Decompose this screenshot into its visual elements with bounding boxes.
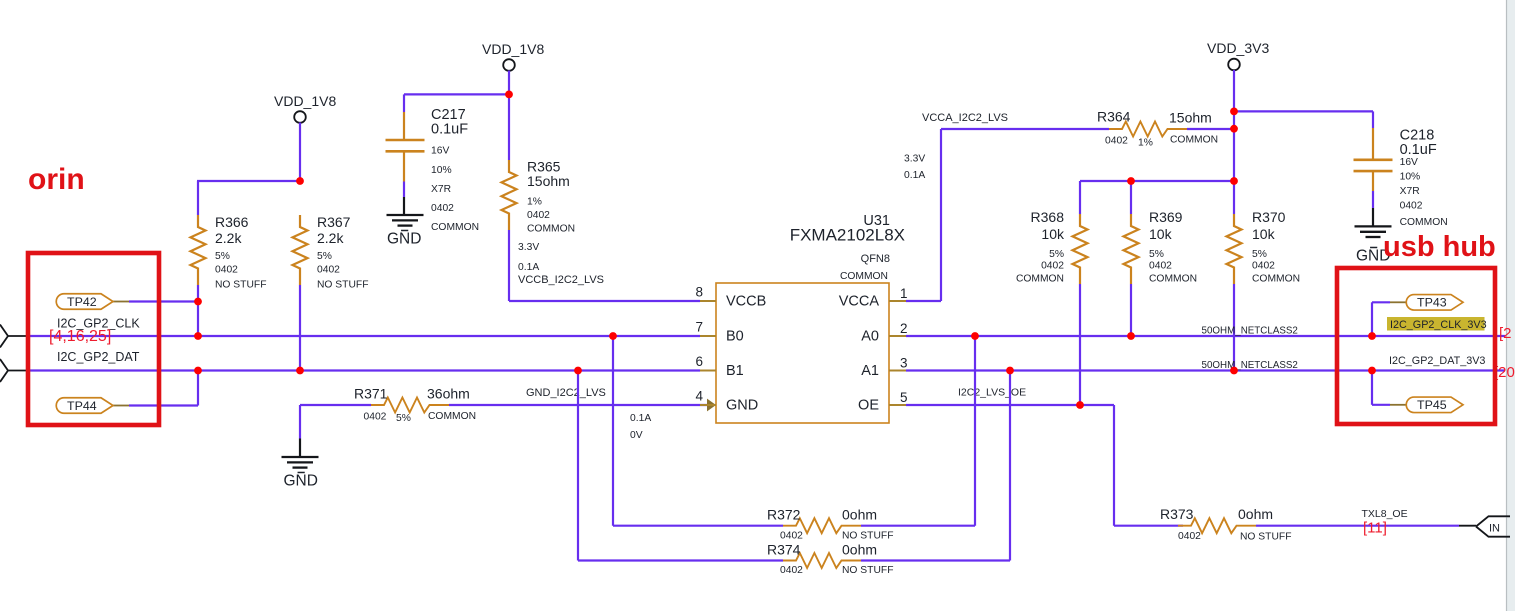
svg-text:GND: GND xyxy=(284,473,318,490)
svg-text:R374: R374 xyxy=(767,542,801,558)
svg-text:VDD_1V8: VDD_1V8 xyxy=(482,41,544,57)
svg-text:2: 2 xyxy=(900,321,908,336)
svg-text:R371: R371 xyxy=(354,386,388,402)
svg-text:COMMON: COMMON xyxy=(527,224,575,235)
svg-text:R373: R373 xyxy=(1160,506,1194,522)
svg-text:0.1A: 0.1A xyxy=(518,262,539,273)
svg-text:1%: 1% xyxy=(527,197,542,208)
svg-text:5%: 5% xyxy=(1149,249,1164,260)
svg-text:TXL8_OE: TXL8_OE xyxy=(1362,508,1408,520)
svg-text:0402: 0402 xyxy=(1252,261,1275,272)
svg-text:TP43: TP43 xyxy=(1417,296,1447,310)
svg-text:0402: 0402 xyxy=(1178,531,1201,542)
svg-text:[11]: [11] xyxy=(1363,520,1387,537)
svg-text:COMMON: COMMON xyxy=(1400,217,1448,228)
svg-text:3: 3 xyxy=(900,356,908,371)
svg-text:0402: 0402 xyxy=(1041,261,1064,272)
svg-text:R368: R368 xyxy=(1031,209,1065,225)
svg-text:16V: 16V xyxy=(431,146,449,157)
svg-text:COMMON: COMMON xyxy=(840,271,888,282)
svg-text:10%: 10% xyxy=(431,165,452,176)
svg-text:36ohm: 36ohm xyxy=(427,386,470,402)
svg-text:VCCB: VCCB xyxy=(726,293,766,309)
svg-text:50OHM_NETCLASS2: 50OHM_NETCLASS2 xyxy=(1202,326,1298,337)
svg-text:15ohm: 15ohm xyxy=(527,173,570,189)
svg-text:B1: B1 xyxy=(726,363,744,379)
svg-text:COMMON: COMMON xyxy=(428,411,476,422)
svg-text:NO STUFF: NO STUFF xyxy=(1240,532,1291,543)
svg-text:NO STUFF: NO STUFF xyxy=(842,565,893,576)
svg-text:0402: 0402 xyxy=(431,203,454,214)
svg-text:IN: IN xyxy=(1489,523,1500,535)
svg-text:7: 7 xyxy=(695,320,703,335)
svg-text:0402: 0402 xyxy=(780,531,803,542)
svg-text:I2C2_LVS_OE: I2C2_LVS_OE xyxy=(958,387,1026,399)
svg-text:B0: B0 xyxy=(726,328,744,344)
svg-text:5%: 5% xyxy=(317,251,332,262)
svg-text:[4,16,25]: [4,16,25] xyxy=(49,328,111,345)
svg-text:10k: 10k xyxy=(1149,226,1173,242)
svg-text:VDD_3V3: VDD_3V3 xyxy=(1207,40,1269,56)
svg-text:I2C_GP2_DAT_3V3: I2C_GP2_DAT_3V3 xyxy=(1389,355,1485,367)
svg-text:0ohm: 0ohm xyxy=(1238,506,1273,522)
svg-text:GND: GND xyxy=(387,231,421,248)
svg-text:0.1A: 0.1A xyxy=(904,170,925,181)
svg-text:COMMON: COMMON xyxy=(431,222,479,233)
svg-text:TP42: TP42 xyxy=(67,295,97,309)
svg-text:R366: R366 xyxy=(215,214,249,230)
svg-text:3.3V: 3.3V xyxy=(518,242,539,253)
svg-text:10k: 10k xyxy=(1252,226,1276,242)
svg-text:A0: A0 xyxy=(861,328,879,344)
svg-text:VCCA: VCCA xyxy=(839,293,880,309)
svg-text:0402: 0402 xyxy=(780,565,803,576)
svg-text:COMMON: COMMON xyxy=(1016,274,1064,285)
svg-text:0.1A: 0.1A xyxy=(630,413,651,424)
svg-text:5%: 5% xyxy=(1049,249,1064,260)
svg-text:VDD_1V8: VDD_1V8 xyxy=(274,93,336,109)
svg-text:0.1uF: 0.1uF xyxy=(1400,142,1437,158)
svg-text:10%: 10% xyxy=(1400,172,1421,183)
svg-text:0402: 0402 xyxy=(317,265,340,276)
svg-text:I2C_GP2_DAT: I2C_GP2_DAT xyxy=(57,350,140,364)
svg-text:2.2k: 2.2k xyxy=(215,230,242,246)
svg-text:TP44: TP44 xyxy=(67,399,97,413)
svg-text:0402: 0402 xyxy=(527,210,550,221)
svg-text:15ohm: 15ohm xyxy=(1169,110,1212,126)
svg-text:R370: R370 xyxy=(1252,209,1286,225)
svg-text:2.2k: 2.2k xyxy=(317,230,344,246)
svg-text:QFN8: QFN8 xyxy=(861,253,890,265)
svg-text:50OHM_NETCLASS2: 50OHM_NETCLASS2 xyxy=(1202,360,1298,371)
svg-text:0.1uF: 0.1uF xyxy=(431,122,468,138)
svg-text:GND_I2C2_LVS: GND_I2C2_LVS xyxy=(526,387,606,399)
svg-text:10k: 10k xyxy=(1041,226,1065,242)
svg-text:FXMA2102L8X: FXMA2102L8X xyxy=(790,226,905,245)
svg-text:4: 4 xyxy=(695,389,703,404)
svg-text:1%: 1% xyxy=(1138,138,1153,149)
svg-text:I2C_GP2_CLK_3V3: I2C_GP2_CLK_3V3 xyxy=(1390,319,1487,331)
svg-text:[2: [2 xyxy=(1499,325,1512,342)
svg-text:5%: 5% xyxy=(396,413,411,424)
svg-text:R372: R372 xyxy=(767,507,801,523)
svg-text:0V: 0V xyxy=(630,430,643,441)
svg-text:3.3V: 3.3V xyxy=(904,154,925,165)
svg-text:VCCA_I2C2_LVS: VCCA_I2C2_LVS xyxy=(922,112,1008,124)
svg-text:A1: A1 xyxy=(861,363,879,379)
svg-text:TP45: TP45 xyxy=(1417,398,1447,412)
svg-text:0402: 0402 xyxy=(1400,201,1423,212)
svg-text:COMMON: COMMON xyxy=(1170,135,1218,146)
svg-text:VCCB_I2C2_LVS: VCCB_I2C2_LVS xyxy=(518,274,604,286)
svg-text:OE: OE xyxy=(858,397,879,413)
svg-text:NO STUFF: NO STUFF xyxy=(215,280,266,291)
svg-text:usb hub: usb hub xyxy=(1383,231,1496,263)
svg-text:5: 5 xyxy=(900,390,908,405)
svg-text:NO STUFF: NO STUFF xyxy=(842,531,893,542)
svg-text:0402: 0402 xyxy=(364,412,387,423)
svg-text:5%: 5% xyxy=(1252,249,1267,260)
svg-text:0ohm: 0ohm xyxy=(842,542,877,558)
svg-text:R369: R369 xyxy=(1149,209,1183,225)
svg-text:X7R: X7R xyxy=(1400,186,1420,197)
svg-text:0402: 0402 xyxy=(1105,136,1128,147)
svg-text:COMMON: COMMON xyxy=(1252,274,1300,285)
svg-text:orin: orin xyxy=(28,163,85,196)
svg-text:COMMON: COMMON xyxy=(1149,274,1197,285)
svg-text:5%: 5% xyxy=(215,251,230,262)
svg-text:0ohm: 0ohm xyxy=(842,507,877,523)
svg-text:1: 1 xyxy=(900,286,908,301)
svg-text:16V: 16V xyxy=(1400,157,1418,168)
svg-text:6: 6 xyxy=(695,354,703,369)
svg-text:GND: GND xyxy=(726,397,758,413)
svg-text:0402: 0402 xyxy=(1149,261,1172,272)
svg-text:R364: R364 xyxy=(1097,109,1131,125)
svg-text:8: 8 xyxy=(695,285,703,300)
svg-text:R367: R367 xyxy=(317,214,351,230)
svg-text:0402: 0402 xyxy=(215,265,238,276)
svg-text:X7R: X7R xyxy=(431,184,451,195)
svg-text:NO STUFF: NO STUFF xyxy=(317,280,368,291)
